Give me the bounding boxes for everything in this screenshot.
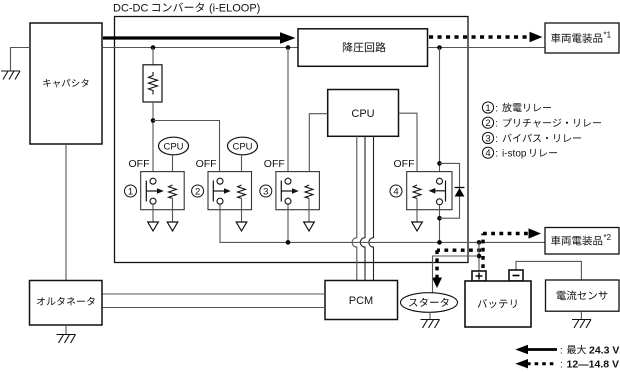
- wire top line to resistor: [152, 48, 154, 65]
- wire output line to relay 4 switch: [439, 48, 441, 179]
- battery (バッテリ) box: [465, 281, 531, 327]
- capacitor (キャパシタ) box: [30, 23, 102, 144]
- svg-text::: :: [495, 134, 498, 145]
- legend circled 2: [482, 117, 601, 129]
- wire relay 2 coil to ground arrow: [241, 198, 243, 222]
- legend circled 1: [482, 102, 551, 114]
- resistor (discharge) R: [143, 65, 162, 102]
- svg-text:(i-ELOOP): (i-ELOOP): [209, 3, 260, 15]
- relay 4 switch contacts: [429, 178, 446, 205]
- node starter junction: [477, 254, 482, 259]
- wire starter to ground: [429, 312, 431, 319]
- relay 4 designator circle: [390, 185, 402, 198]
- wire step-down circuit output to vehicle accessories *1: [428, 47, 546, 49]
- thick arrow capacitor to step-down circuit (max 24.3 V): [103, 32, 296, 43]
- relay 2 box: [208, 172, 252, 210]
- ground arrow below relay 1 switch: [148, 222, 159, 231]
- relay 3 box: [276, 172, 320, 210]
- svg-text:2: 2: [195, 187, 200, 198]
- node diode bottom: [437, 216, 442, 221]
- relay 3 coil: [305, 185, 313, 198]
- node relay 4 tap: [437, 45, 442, 50]
- wire bundle CPU to PCM (3 lines with hops): [352, 136, 373, 280]
- wire alternator to ground: [65, 325, 67, 335]
- wire relay 3 switch down to common line: [287, 204, 289, 242]
- wire relay 4 coil to ground arrow: [416, 198, 418, 222]
- svg-text:24.3 V: 24.3 V: [589, 344, 619, 356]
- node resistor tap: [151, 45, 156, 50]
- node relay 3 junction: [286, 240, 291, 245]
- wire current sensor to ground: [580, 311, 582, 319]
- svg-text:*1: *1: [604, 31, 612, 40]
- CPU box (main) U1: [328, 90, 399, 137]
- relay 4 coil: [413, 185, 421, 198]
- DC-DC converter outer box: [115, 17, 469, 263]
- svg-text::: :: [560, 360, 563, 371]
- PCM box: [325, 281, 398, 320]
- svg-text:1: 1: [128, 187, 133, 198]
- starter (スタータ) oval: [401, 293, 458, 313]
- svg-text:OFF: OFF: [129, 158, 150, 170]
- vehicle accessories *2 (車両電装品) box: [545, 228, 619, 255]
- wire relay 3 coil to ground arrow: [308, 198, 310, 222]
- current sensor (電流センサ) box: [546, 280, 620, 311]
- svg-text:CPU: CPU: [163, 142, 183, 153]
- ground arrow below relay 1 coil: [167, 222, 178, 231]
- wire relay 1 coil to ground arrow: [172, 198, 174, 222]
- svg-text:2: 2: [485, 118, 490, 129]
- legend solid arrow max 24.3 V: [515, 344, 619, 356]
- node below resistor: [151, 118, 156, 123]
- wire starter to battery +: [433, 256, 480, 293]
- relay 1 designator circle: [125, 185, 137, 198]
- ground arrow below relay 4 coil: [412, 222, 423, 231]
- wire common line relays to vehicle accessories *2: [220, 241, 546, 243]
- svg-text:1: 1: [485, 103, 490, 114]
- relay 2 designator circle: [192, 185, 204, 198]
- legend circled 3: [482, 132, 581, 144]
- legend circled 4: [482, 147, 557, 159]
- wire capacitor to ground: [11, 48, 31, 72]
- dashed arrow battery to starter: [432, 250, 481, 288]
- wire CPU oval to relay 2 coil: [241, 155, 243, 185]
- wire top line to relay 3 switch: [287, 48, 289, 179]
- relay 1 box: [141, 172, 185, 210]
- wire battery - to current sensor: [516, 261, 581, 280]
- relay 2 coil: [238, 185, 246, 198]
- node relay 4 junction: [437, 240, 442, 245]
- relay 3 switch contacts: [281, 178, 299, 204]
- relay 2 switch contacts: [213, 178, 231, 204]
- battery - terminal: [509, 270, 523, 281]
- svg-text::: :: [495, 119, 498, 130]
- svg-text::: :: [495, 149, 498, 160]
- wire resistor to node: [152, 102, 154, 178]
- wire relay 1 switch to ground arrow: [152, 204, 154, 222]
- node relay 3 tap: [286, 45, 291, 50]
- svg-text::: :: [560, 345, 563, 356]
- svg-text:CPU: CPU: [232, 142, 252, 153]
- svg-text:*2: *2: [604, 233, 612, 242]
- CPU oval (relay 1 driver): [159, 137, 189, 155]
- diode branch across relay 4: [440, 163, 465, 218]
- battery + terminal: [472, 271, 486, 281]
- svg-text:12—14.8 V: 12—14.8 V: [567, 359, 620, 371]
- relay 4 box: [407, 172, 452, 210]
- legend dashed arrow 12-14.8 V: [515, 359, 619, 371]
- ground below current sensor: [572, 320, 591, 329]
- svg-text:OFF: OFF: [264, 158, 285, 170]
- svg-text:4: 4: [485, 148, 490, 159]
- dashed arrow battery to vehicle accessories *2: [483, 228, 541, 268]
- CPU oval (relay 2 driver): [228, 137, 258, 155]
- alternator (オルタネータ) box: [30, 281, 103, 326]
- wire node to relay 2 switch: [153, 121, 220, 179]
- wire CPU oval to relay 1 coil: [172, 155, 174, 185]
- dashed arrow step-down to vehicle accessories *1 (12-14.8 V): [429, 32, 543, 43]
- ground below alternator: [57, 335, 76, 344]
- ground (chassis) left of capacitor: [1, 71, 20, 80]
- title: DC-DC converter (i-ELOOP): [113, 3, 260, 15]
- ground below starter: [421, 320, 440, 329]
- wires alternator to PCM: [102, 293, 325, 295]
- wire relay 2 switch down to common line: [219, 204, 221, 242]
- ground arrow below relay 3 coil: [304, 222, 315, 231]
- svg-text:4: 4: [393, 187, 398, 198]
- ground arrow below relay 2 coil: [236, 222, 247, 231]
- svg-text:PCM: PCM: [349, 295, 373, 307]
- relay 1 coil: [169, 185, 177, 198]
- svg-text:OFF: OFF: [394, 158, 415, 170]
- wire capacitor to alternator: [65, 144, 67, 281]
- relay 3 designator circle: [260, 185, 272, 198]
- node battery + junction: [477, 240, 482, 245]
- svg-text:3: 3: [263, 187, 268, 198]
- svg-text:OFF: OFF: [196, 158, 217, 170]
- svg-text::: :: [495, 103, 498, 114]
- svg-text:3: 3: [485, 134, 490, 145]
- svg-text:DC-DC: DC-DC: [113, 3, 148, 15]
- wire capacitor to step-down circuit: [102, 47, 298, 49]
- svg-text:CPU: CPU: [351, 108, 374, 120]
- wire CPU to relay 4 coil: [399, 113, 418, 185]
- vehicle accessories *1 (車両電装品) box: [545, 23, 619, 53]
- relay 1 switch contacts: [146, 178, 164, 204]
- svg-text:i-stop: i-stop: [502, 149, 527, 160]
- node diode top: [437, 161, 442, 166]
- wire battery + to common line: [478, 242, 480, 271]
- wire relay 4 switch down: [439, 205, 441, 243]
- step-down circuit (降圧回路) box: [298, 29, 428, 67]
- wire CPU to relay 3 coil: [309, 114, 327, 185]
